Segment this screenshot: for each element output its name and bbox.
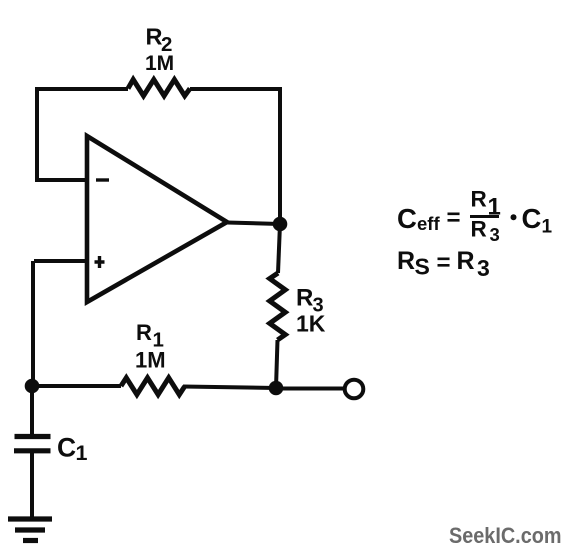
svg-text:3: 3 — [477, 255, 490, 281]
label C1 — [57, 433, 88, 466]
resistor R1 — [121, 378, 185, 395]
svg-text:=: = — [447, 205, 461, 232]
wire bottom (R1 to node) — [183, 387, 276, 389]
node junction bottom-left — [25, 379, 40, 394]
wire to output terminal — [276, 387, 344, 391]
svg-text:3: 3 — [490, 224, 500, 245]
svg-text:R: R — [471, 217, 487, 242]
resistor R3 — [270, 273, 286, 340]
wire capacitor lower lead — [30, 451, 34, 518]
wire top-left horizontal (feedback top, left of R2) — [37, 87, 128, 91]
resistor R2 — [128, 80, 190, 96]
label R2 — [146, 24, 173, 57]
svg-text:C: C — [397, 203, 417, 234]
svg-text:S: S — [415, 254, 430, 280]
svg-text:1K: 1K — [296, 311, 326, 337]
capacitor C1 — [14, 437, 51, 451]
svg-text:=: = — [437, 250, 451, 277]
svg-text:R: R — [397, 247, 415, 275]
wire capacitor upper lead — [30, 386, 34, 434]
wire op-amp output — [227, 223, 280, 225]
equation Rs = R3 — [397, 247, 490, 281]
label R3 — [296, 285, 324, 317]
svg-text:1: 1 — [76, 441, 88, 465]
ground — [8, 519, 52, 541]
wire top-right horizontal (feedback top, right of R2) — [190, 87, 280, 91]
output terminal (open circle) — [345, 380, 364, 399]
plus sign (non-inverting input) — [95, 256, 105, 268]
label R1 — [136, 320, 164, 352]
svg-text:C: C — [522, 203, 542, 234]
minus sign (inverting input) — [96, 178, 109, 181]
svg-text:1M: 1M — [135, 348, 166, 373]
svg-text:SeekIC.com: SeekIC.com — [449, 523, 562, 548]
wire left vertical (+ input down to bottom node) — [31, 261, 35, 386]
wire feedback left vertical — [35, 87, 39, 180]
svg-text:R: R — [136, 320, 152, 345]
wire bottom (node to R1) — [32, 384, 121, 388]
wire R3 lower lead — [276, 340, 278, 388]
svg-text:R: R — [457, 247, 475, 275]
wire feedback right vertical — [278, 87, 282, 224]
svg-text:C: C — [57, 433, 76, 463]
equation Ceff = R1/R3 · C1 — [397, 187, 553, 246]
op-amp U1 — [87, 136, 227, 302]
svg-text:eff: eff — [417, 213, 440, 234]
svg-text:1: 1 — [542, 217, 553, 238]
wire non-inverting input — [34, 259, 87, 263]
svg-text:1M: 1M — [145, 52, 174, 75]
wire inverting input — [35, 178, 87, 182]
node junction output/feedback — [273, 217, 288, 232]
svg-text:R: R — [146, 24, 163, 50]
svg-text:R: R — [471, 187, 487, 212]
svg-text:R: R — [296, 285, 313, 312]
wire R3 upper lead — [278, 224, 280, 273]
node junction bottom-right — [269, 381, 284, 396]
